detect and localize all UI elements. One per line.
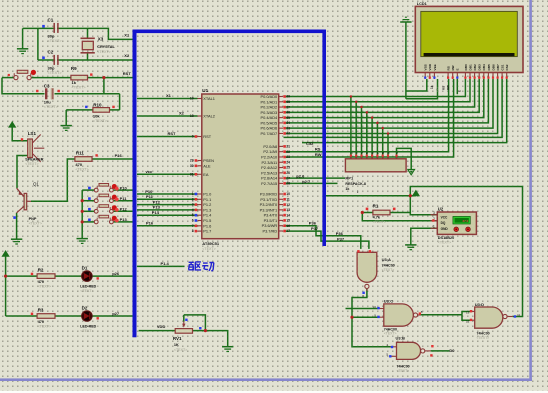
svg-text:C2: C2 xyxy=(48,49,54,54)
svg-text:3: 3 xyxy=(192,203,194,207)
wire xyxy=(55,93,120,95)
svg-text:39: 39 xyxy=(286,95,290,99)
node P37 xyxy=(337,236,345,241)
wire xyxy=(38,59,134,61)
button K3 xyxy=(88,205,119,214)
node P11 xyxy=(120,196,128,201)
svg-text:7: 7 xyxy=(192,224,194,228)
wire xyxy=(284,231,369,249)
wire xyxy=(456,79,458,94)
svg-text:1K: 1K xyxy=(174,343,179,347)
svg-text:vcc: vcc xyxy=(146,169,153,174)
wire xyxy=(284,79,484,118)
LCD display LCD1 xyxy=(415,2,523,79)
svg-text:VDD: VDD xyxy=(428,63,432,70)
junction xyxy=(355,101,358,104)
svg-text:P3.7/RD: P3.7/RD xyxy=(262,228,277,233)
node RST xyxy=(123,71,132,76)
svg-text:<TEXT>: <TEXT> xyxy=(72,86,87,90)
junction xyxy=(350,316,353,319)
label xyxy=(430,85,439,92)
svg-text:P2.4/A12: P2.4/A12 xyxy=(261,165,277,170)
wire xyxy=(355,102,357,159)
resistor R11 xyxy=(75,150,98,171)
node P13 xyxy=(153,205,161,210)
svg-text:P1.3: P1.3 xyxy=(203,207,211,212)
svg-text:VEE: VEE xyxy=(433,64,437,70)
wire xyxy=(23,28,135,39)
svg-text:26: 26 xyxy=(286,171,290,175)
svg-text:1k: 1k xyxy=(72,80,77,85)
svg-text:GND: GND xyxy=(441,227,449,231)
svg-text:P12: P12 xyxy=(153,199,161,204)
svg-text:P1.2: P1.2 xyxy=(203,202,211,207)
wire xyxy=(114,210,133,212)
svg-text:DB3: DB3 xyxy=(478,64,482,70)
wire xyxy=(6,275,133,277)
button K4 xyxy=(88,215,119,224)
NAND gate U3:C xyxy=(373,299,423,336)
svg-text:EA: EA xyxy=(203,172,209,177)
svg-text:31: 31 xyxy=(190,172,194,176)
wire xyxy=(139,330,176,332)
microcontroller U1 xyxy=(190,88,290,251)
svg-text:<TEXT>: <TEXT> xyxy=(174,348,187,352)
NAND gate U3:B xyxy=(386,336,433,373)
wire xyxy=(137,98,198,100)
svg-text:470: 470 xyxy=(38,280,44,284)
wire xyxy=(137,265,185,267)
resistor R10 xyxy=(85,102,115,123)
svg-text:18: 18 xyxy=(190,114,194,118)
svg-text:U3:D: U3:D xyxy=(475,302,484,307)
svg-text:P1.1: P1.1 xyxy=(203,197,211,202)
svg-text:9: 9 xyxy=(192,135,194,139)
svg-text:470: 470 xyxy=(38,320,44,324)
ground xyxy=(61,126,72,131)
resistor R1 xyxy=(366,204,396,225)
svg-text:4.7k: 4.7k xyxy=(373,216,381,220)
wire xyxy=(284,79,489,123)
junction xyxy=(387,132,390,135)
node X1 xyxy=(166,93,172,98)
svg-text:P0.5/AD5: P0.5/AD5 xyxy=(261,120,278,125)
wire xyxy=(6,315,133,317)
junction xyxy=(371,116,374,119)
svg-text:RST: RST xyxy=(203,134,211,139)
svg-text:<TEXT>: <TEXT> xyxy=(438,240,451,244)
svg-text:11: 11 xyxy=(286,197,290,201)
node P14 xyxy=(152,210,160,215)
svg-text:<TEXT>: <TEXT> xyxy=(97,50,110,54)
svg-text:ALE: ALE xyxy=(203,163,211,168)
svg-text:P16: P16 xyxy=(115,153,123,158)
junction xyxy=(409,194,412,197)
wire xyxy=(137,173,198,175)
svg-text:P1.4: P1.4 xyxy=(203,213,212,218)
wire xyxy=(406,79,438,99)
capacitor C3 xyxy=(36,83,60,109)
wire xyxy=(137,225,198,227)
svg-text:R2: R2 xyxy=(38,268,44,273)
wire xyxy=(462,315,471,320)
svg-text:RW: RW xyxy=(315,152,322,157)
svg-text:R3: R3 xyxy=(38,308,44,313)
svg-text:P0.0/AD0: P0.0/AD0 xyxy=(261,94,278,99)
power +5V xyxy=(9,122,16,128)
svg-text:C52: C52 xyxy=(306,141,314,146)
svg-text:LED-RED: LED-RED xyxy=(80,285,96,289)
resistor R9 xyxy=(71,66,93,89)
node CS2 xyxy=(306,141,314,146)
wire xyxy=(137,204,198,206)
svg-text:E: E xyxy=(456,68,460,70)
wire xyxy=(284,79,466,97)
ground xyxy=(405,245,416,250)
svg-text:P13: P13 xyxy=(153,205,161,210)
wire xyxy=(87,53,89,60)
svg-text:1k: 1k xyxy=(345,187,349,191)
svg-text:25: 25 xyxy=(286,166,290,170)
svg-text:XTAL2: XTAL2 xyxy=(203,114,215,119)
wire xyxy=(284,79,494,128)
svg-text:X1: X1 xyxy=(166,93,172,98)
svg-text:LCD1: LCD1 xyxy=(417,2,427,6)
svg-text:16: 16 xyxy=(286,224,290,228)
svg-text:DB4: DB4 xyxy=(482,64,486,70)
ground xyxy=(400,17,411,22)
svg-text:P10: P10 xyxy=(120,185,128,190)
junction xyxy=(376,122,379,125)
svg-text:P3.0/RXD: P3.0/RXD xyxy=(260,192,277,197)
svg-text:DB5: DB5 xyxy=(487,64,491,70)
ground xyxy=(77,239,88,244)
node P1.4 xyxy=(161,261,170,266)
LED D1 xyxy=(80,265,99,293)
svg-text:<TEXT>: <TEXT> xyxy=(48,39,63,43)
svg-text:RS: RS xyxy=(442,86,446,90)
wire xyxy=(103,78,105,94)
svg-text:37: 37 xyxy=(286,105,290,109)
wire xyxy=(387,133,389,158)
NAND gate U3:A xyxy=(357,250,395,298)
svg-text:P3.6/WR: P3.6/WR xyxy=(262,223,278,228)
svg-text:38: 38 xyxy=(286,100,290,104)
wire xyxy=(31,77,135,79)
node P16 xyxy=(146,221,154,226)
temperature sensor U2 xyxy=(431,206,477,244)
svg-text:8: 8 xyxy=(192,229,194,233)
wire xyxy=(114,221,133,223)
svg-text:P3.1/TXD: P3.1/TXD xyxy=(260,197,277,202)
svg-text:1k: 1k xyxy=(430,85,434,89)
wire xyxy=(366,112,368,158)
svg-text:D1: D1 xyxy=(82,265,88,270)
wire xyxy=(12,127,28,141)
svg-text:P3.3/INT1: P3.3/INT1 xyxy=(260,207,278,212)
svg-text:R1: R1 xyxy=(373,204,379,209)
button K2 xyxy=(88,194,119,203)
svg-text:P2.2/A10: P2.2/A10 xyxy=(261,154,278,159)
power +5V xyxy=(2,251,9,257)
junction xyxy=(381,127,384,130)
node D0 xyxy=(449,348,455,353)
junction xyxy=(102,76,105,79)
svg-text:X2: X2 xyxy=(179,111,185,116)
selection highlight xyxy=(133,30,327,338)
node vcc xyxy=(146,169,153,174)
power +5V xyxy=(412,190,419,196)
LED D2 xyxy=(80,305,99,333)
svg-text:28: 28 xyxy=(286,182,290,186)
svg-text:P1.6: P1.6 xyxy=(203,223,211,228)
wire xyxy=(82,221,94,223)
button K1 xyxy=(88,184,119,193)
svg-text:30: 30 xyxy=(190,164,194,168)
svg-text:<TEXT>: <TEXT> xyxy=(38,324,51,328)
svg-text:<TEXT>: <TEXT> xyxy=(93,119,108,123)
svg-text:p27: p27 xyxy=(112,311,120,316)
node p26 xyxy=(112,271,120,276)
wire xyxy=(382,128,384,159)
svg-text:P2.1/A9: P2.1/A9 xyxy=(263,149,277,154)
wire xyxy=(421,314,463,316)
svg-text:<TEXT>: <TEXT> xyxy=(48,71,63,75)
svg-text:P3.4/T0: P3.4/T0 xyxy=(264,213,278,218)
node P13 xyxy=(120,217,128,222)
node P10 xyxy=(120,185,128,190)
junction xyxy=(366,111,369,114)
svg-text:11: 11 xyxy=(517,313,520,317)
svg-text:24: 24 xyxy=(286,160,290,164)
svg-text:U3:C: U3:C xyxy=(384,299,393,304)
svg-text:P0.1/AD1: P0.1/AD1 xyxy=(261,99,278,104)
svg-text:27.0: 27.0 xyxy=(462,219,468,223)
svg-text:32: 32 xyxy=(286,132,290,136)
svg-text:D0: D0 xyxy=(449,348,455,353)
svg-text:P2.5/A13: P2.5/A13 xyxy=(261,170,277,175)
svg-text:6: 6 xyxy=(192,219,194,223)
wire xyxy=(16,213,18,239)
svg-text:C3: C3 xyxy=(44,83,50,88)
svg-text:<T>: <T> xyxy=(435,87,439,92)
wire xyxy=(284,177,346,179)
node P12 xyxy=(120,207,128,212)
wire xyxy=(137,209,198,211)
svg-text:U2: U2 xyxy=(438,206,444,211)
wire xyxy=(350,97,352,159)
svg-text:10u: 10u xyxy=(44,99,51,104)
svg-text:U3:B: U3:B xyxy=(396,336,405,341)
svg-text:13: 13 xyxy=(286,208,290,212)
svg-text:P1.5: P1.5 xyxy=(203,218,211,223)
svg-text:<TEXT>: <TEXT> xyxy=(382,268,395,272)
junction xyxy=(360,106,363,109)
wire xyxy=(284,226,361,249)
svg-text:<TEXT>: <TEXT> xyxy=(80,329,93,333)
svg-text:P12: P12 xyxy=(120,207,128,212)
svg-text:P1.4: P1.4 xyxy=(161,261,170,266)
svg-text:U1: U1 xyxy=(202,88,208,93)
svg-text:15: 15 xyxy=(286,219,290,223)
wire xyxy=(284,79,480,112)
svg-text:P1.7: P1.7 xyxy=(203,229,211,234)
svg-text:P11: P11 xyxy=(146,194,154,199)
node P36 xyxy=(309,221,317,226)
svg-text:<TEXT>: <TEXT> xyxy=(38,285,51,289)
svg-text:12: 12 xyxy=(286,203,290,207)
svg-text:DS18B20: DS18B20 xyxy=(438,236,454,240)
svg-text:P3.5/T1: P3.5/T1 xyxy=(264,218,278,223)
svg-text:1: 1 xyxy=(192,192,194,196)
svg-text:1: 1 xyxy=(433,225,435,229)
junction xyxy=(350,95,353,98)
wire xyxy=(92,158,133,160)
svg-text:74HC00: 74HC00 xyxy=(397,364,410,368)
svg-text:RST: RST xyxy=(123,71,132,76)
wire xyxy=(87,28,89,38)
wire xyxy=(137,193,198,195)
svg-text:<TEXT>: <TEXT> xyxy=(202,247,215,251)
junction xyxy=(361,211,364,214)
ground xyxy=(17,49,28,54)
svg-text:DQ: DQ xyxy=(441,221,446,225)
svg-text:21: 21 xyxy=(286,145,290,149)
svg-text:R10: R10 xyxy=(93,102,102,107)
svg-text:12: 12 xyxy=(466,320,470,324)
svg-text:RV1: RV1 xyxy=(173,336,182,341)
svg-text:470: 470 xyxy=(75,162,82,167)
wire xyxy=(352,289,391,347)
svg-text:P37: P37 xyxy=(311,226,319,231)
node P10 xyxy=(145,189,153,194)
wire xyxy=(405,22,407,99)
node X2 xyxy=(179,111,185,116)
svg-text:<TEXT>: <TEXT> xyxy=(477,336,490,340)
svg-text:33: 33 xyxy=(286,126,290,130)
capacitor C1 xyxy=(42,18,62,44)
ground xyxy=(11,239,22,244)
wire xyxy=(431,350,450,352)
svg-text:P11: P11 xyxy=(120,196,128,201)
svg-text:RESPACK-8: RESPACK-8 xyxy=(345,182,366,186)
svg-text:VCC: VCC xyxy=(441,216,448,220)
svg-text:2: 2 xyxy=(192,197,194,201)
svg-text:<TEXT>: <TEXT> xyxy=(373,220,386,224)
svg-text:P10: P10 xyxy=(145,189,153,194)
svg-text:P3.2/INT0: P3.2/INT0 xyxy=(260,202,278,207)
svg-text:PNP: PNP xyxy=(29,217,37,221)
node X1 xyxy=(124,33,130,38)
svg-text:17: 17 xyxy=(286,229,290,233)
wire xyxy=(362,212,410,214)
wire xyxy=(193,331,228,347)
svg-text:DB1: DB1 xyxy=(468,64,472,70)
svg-text:34: 34 xyxy=(286,121,290,125)
svg-text:P2.3/A11: P2.3/A11 xyxy=(261,160,277,165)
resistor R2 xyxy=(31,268,55,289)
wire xyxy=(137,136,198,138)
transistor Q1 xyxy=(13,181,42,225)
svg-text:XTAL1: XTAL1 xyxy=(203,96,215,101)
NAND gate U3:D xyxy=(466,302,521,340)
svg-text:22: 22 xyxy=(286,150,290,154)
wire xyxy=(2,77,14,79)
wire xyxy=(346,308,378,310)
svg-text:D2: D2 xyxy=(82,305,88,310)
wire xyxy=(406,79,427,91)
svg-text:R11: R11 xyxy=(76,150,85,155)
wire xyxy=(119,94,121,110)
wire xyxy=(371,118,373,159)
junction xyxy=(81,199,84,202)
resistor R3 xyxy=(31,308,55,329)
wire xyxy=(361,107,363,159)
svg-text:10k: 10k xyxy=(93,113,100,118)
wire xyxy=(183,315,185,322)
button xyxy=(8,70,36,80)
svg-text:13: 13 xyxy=(466,311,470,315)
svg-text:CS2: CS2 xyxy=(505,64,509,70)
wire xyxy=(284,79,475,107)
speaker LS1 xyxy=(21,131,45,166)
svg-text:P0.7/AD7: P0.7/AD7 xyxy=(261,131,278,136)
svg-text:10: 10 xyxy=(286,192,290,196)
wire xyxy=(284,79,471,102)
wire xyxy=(114,189,133,191)
svg-text:E: E xyxy=(458,90,462,92)
wire xyxy=(37,28,39,60)
svg-text:CS1: CS1 xyxy=(501,64,505,70)
svg-text:P0.6/AD6: P0.6/AD6 xyxy=(261,126,278,131)
wire xyxy=(137,198,198,200)
svg-text:14: 14 xyxy=(286,213,290,217)
svg-text:p2.7: p2.7 xyxy=(302,179,311,184)
node P16 xyxy=(115,153,123,158)
wire xyxy=(137,115,198,117)
wire xyxy=(284,182,338,184)
svg-text:36: 36 xyxy=(286,111,290,115)
svg-text:<TEXT>: <TEXT> xyxy=(397,369,410,373)
svg-text:RW: RW xyxy=(451,65,455,70)
svg-text:P37: P37 xyxy=(337,236,345,241)
svg-text:SPEAKER: SPEAKER xyxy=(25,157,44,161)
svg-text:p2.6: p2.6 xyxy=(296,173,305,178)
wire xyxy=(82,200,94,202)
svg-text:P16: P16 xyxy=(146,221,154,226)
wire xyxy=(284,79,498,133)
svg-text:DB0: DB0 xyxy=(464,64,468,70)
wire xyxy=(82,210,94,212)
node RS xyxy=(315,147,321,152)
wire xyxy=(22,28,24,48)
node P11 xyxy=(146,194,154,199)
svg-text:74HC00: 74HC00 xyxy=(382,263,395,267)
wire xyxy=(81,190,83,239)
svg-text:P13: P13 xyxy=(120,217,128,222)
svg-text:p26: p26 xyxy=(112,271,120,276)
node P37 xyxy=(311,226,319,231)
svg-text:P2.0/A8: P2.0/A8 xyxy=(263,144,277,149)
node P12 xyxy=(153,199,161,204)
svg-text:AT89C51: AT89C51 xyxy=(202,241,220,246)
crystal X3 xyxy=(81,37,116,54)
svg-text:X1: X1 xyxy=(124,33,130,38)
svg-text:P36: P36 xyxy=(336,231,344,236)
svg-text:3: 3 xyxy=(433,211,435,215)
junction xyxy=(81,220,84,223)
svg-text:P36: P36 xyxy=(309,221,317,226)
